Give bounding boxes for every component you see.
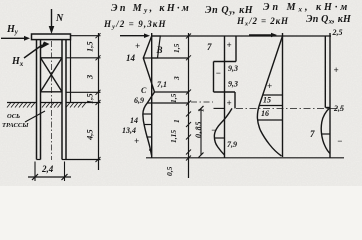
svg-text:0,5: 0,5: [165, 166, 174, 176]
svg-text:ОСЬ: ОСЬ: [7, 113, 20, 120]
svg-text:1,5: 1,5: [172, 43, 181, 53]
svg-text:ТРАССЫ: ТРАССЫ: [2, 122, 29, 129]
svg-text:−: −: [216, 68, 221, 78]
svg-text:+: +: [227, 98, 232, 108]
svg-text:N: N: [55, 13, 64, 24]
svg-text:7,9: 7,9: [227, 140, 237, 149]
svg-text:Hx/2 = 2кН: Hx/2 = 2кН: [236, 16, 289, 28]
svg-text:2,4: 2,4: [41, 164, 54, 174]
svg-text:1,5: 1,5: [85, 93, 95, 104]
svg-text:1: 1: [172, 119, 181, 123]
svg-text:Эп Мx, кН·м: Эп Мx, кН·м: [263, 2, 350, 14]
svg-text:+: +: [227, 40, 232, 50]
svg-text:7: 7: [310, 129, 315, 139]
svg-text:+: +: [135, 41, 140, 51]
svg-text:16: 16: [261, 109, 269, 118]
svg-text:14: 14: [130, 116, 138, 125]
svg-text:1,5: 1,5: [169, 93, 178, 103]
svg-text:B: B: [156, 45, 163, 55]
svg-text:13,4: 13,4: [122, 126, 136, 135]
svg-text:3: 3: [85, 74, 95, 80]
svg-text:Эп Мy, кН·м: Эп Мy, кН·м: [111, 3, 191, 15]
svg-text:+: +: [334, 65, 339, 75]
svg-text:15: 15: [263, 96, 271, 105]
svg-text:0,85: 0,85: [194, 121, 203, 138]
svg-text:14: 14: [126, 53, 136, 63]
svg-text:1: 1: [197, 108, 206, 112]
svg-text:4,5: 4,5: [85, 129, 95, 141]
svg-text:+: +: [267, 81, 272, 91]
svg-text:9,3: 9,3: [228, 64, 238, 73]
svg-text:1,5: 1,5: [85, 41, 95, 52]
svg-text:9,3: 9,3: [228, 80, 238, 89]
svg-text:−: −: [337, 136, 342, 146]
svg-text:2,5: 2,5: [332, 28, 343, 37]
svg-text:7,1: 7,1: [157, 80, 167, 89]
svg-text:6,9: 6,9: [134, 96, 144, 105]
svg-text:−: −: [211, 125, 216, 135]
svg-text:3: 3: [172, 76, 181, 81]
svg-text:+: +: [134, 136, 139, 146]
svg-text:2,5: 2,5: [333, 104, 344, 113]
svg-text:C: C: [141, 86, 147, 95]
svg-text:1,15: 1,15: [169, 130, 178, 143]
svg-text:7: 7: [207, 42, 212, 52]
